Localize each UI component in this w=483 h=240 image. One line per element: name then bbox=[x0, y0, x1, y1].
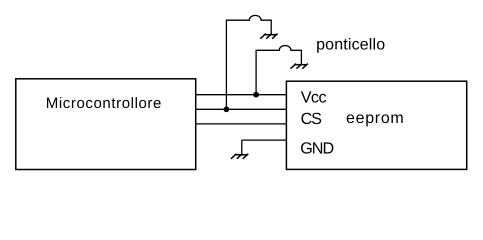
svg-text:GND: GND bbox=[300, 140, 333, 158]
svg-text:Microcontrollore: Microcontrollore bbox=[46, 95, 162, 112]
svg-text:CS: CS bbox=[301, 110, 323, 128]
svg-text:eeprom: eeprom bbox=[346, 110, 404, 127]
svg-text:Vcc: Vcc bbox=[301, 89, 327, 107]
svg-text:ponticello: ponticello bbox=[316, 37, 385, 54]
